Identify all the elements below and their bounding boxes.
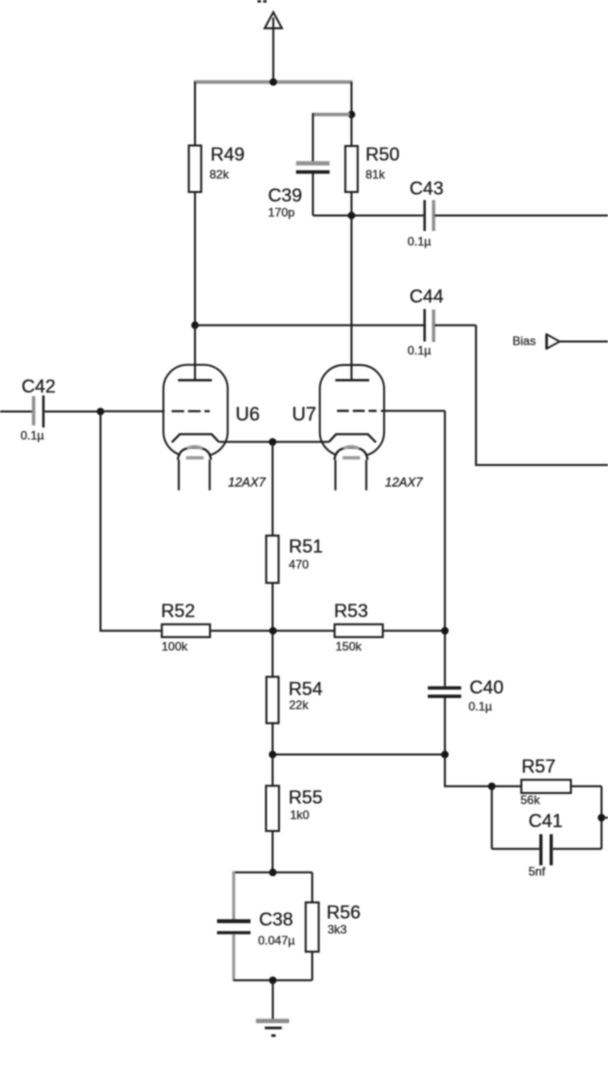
svg-text:R55: R55 — [289, 787, 323, 808]
svg-text:R50: R50 — [366, 144, 400, 165]
wire: stub to right edge — [602, 817, 608, 819]
svg-text:C42: C42 — [22, 376, 56, 397]
svg-text:R52: R52 — [161, 600, 195, 621]
svg-text:81k: 81k — [366, 168, 386, 182]
svg-text:C39: C39 — [268, 185, 302, 206]
svg-text:R51: R51 — [289, 536, 323, 557]
resistor R55 — [266, 755, 323, 873]
node: input junction — [97, 408, 105, 416]
resistor R56 — [306, 872, 361, 980]
triode U7 — [292, 365, 445, 490]
node: R50/C39 top junction — [348, 111, 356, 119]
svg-text:56k: 56k — [521, 793, 541, 807]
clipped label fragment at top edge — [258, 0, 267, 3]
svg-text:C38: C38 — [259, 909, 293, 930]
wire: C39 top link (gray) — [313, 113, 350, 116]
wire: R50 to U7 plate — [351, 192, 353, 380]
svg-text:U7: U7 — [292, 405, 316, 426]
wire: U7 grid down to R53 — [444, 411, 446, 631]
svg-text:R57: R57 — [522, 756, 556, 777]
svg-text:0.1µ: 0.1µ — [408, 344, 432, 358]
wire: tail node to R57 block — [445, 755, 492, 787]
wire: grid lead to U6 — [101, 410, 165, 412]
wire: input node down to R52 — [101, 412, 162, 631]
capacitor C40 — [428, 631, 504, 755]
svg-text:170p: 170p — [268, 206, 295, 220]
node: C38/R56 top junction — [269, 869, 277, 877]
svg-text:5nf: 5nf — [529, 865, 546, 879]
svg-text:82k: 82k — [210, 168, 230, 182]
svg-text:12AX7: 12AX7 — [385, 476, 424, 490]
resistor R50 — [345, 144, 399, 193]
node: R53 right junction — [441, 627, 449, 635]
node: C43 tap junction — [348, 212, 356, 220]
wire: input from left edge — [0, 411, 32, 413]
capacitor C44 — [195, 286, 476, 358]
svg-text:R56: R56 — [327, 902, 361, 923]
svg-text:470: 470 — [289, 558, 309, 572]
svg-text:22k: 22k — [289, 698, 309, 712]
wire: tail row — [273, 754, 445, 756]
svg-text:1k0: 1k0 — [290, 808, 310, 822]
node: U6 plate junction — [191, 321, 199, 329]
svg-text:C41: C41 — [529, 810, 563, 831]
resistor R49 — [189, 144, 245, 193]
wire: R49 to plate node — [194, 192, 196, 326]
resistor R54 — [266, 631, 322, 755]
capacitor C43 — [352, 178, 608, 249]
wire: B+ rail (gray) — [194, 80, 353, 84]
svg-text:150k: 150k — [336, 640, 363, 654]
node: C38/R56 bottom junction — [269, 977, 277, 985]
wire: cathode to R51 — [272, 442, 274, 536]
svg-text:3k3: 3k3 — [328, 923, 348, 937]
wire: C44 output to right edge — [476, 325, 608, 465]
ground — [256, 980, 289, 1035]
node: R57 block left junction — [488, 783, 496, 791]
svg-text:U6: U6 — [236, 405, 260, 426]
triode U6 — [163, 326, 266, 490]
svg-text:C40: C40 — [470, 677, 504, 698]
node: tail left junction — [269, 751, 277, 759]
resistor R51 — [266, 536, 323, 583]
svg-text:0.1µ: 0.1µ — [469, 700, 493, 714]
node: tail right junction — [441, 751, 449, 759]
wire: R57 block right branch — [601, 786, 603, 849]
node: output junction right — [598, 814, 606, 822]
resistor R52 — [161, 600, 273, 654]
svg-text:0.1µ: 0.1µ — [408, 235, 432, 249]
wire: parallel block top rail — [234, 871, 313, 873]
svg-text:C43: C43 — [410, 178, 444, 199]
svg-text:R49: R49 — [211, 144, 245, 165]
wire: cathodes common — [219, 441, 329, 443]
capacitor C42 — [21, 376, 101, 443]
wire: parallel block bottom rail — [234, 979, 313, 981]
power supply symbol (up arrow) — [265, 12, 282, 82]
wire: rail to R49 — [194, 82, 196, 146]
svg-text:0.1µ: 0.1µ — [21, 429, 45, 443]
node: mid junction — [269, 627, 277, 635]
wire: rail to R50 branch — [351, 82, 353, 146]
capacitor C41 — [492, 786, 602, 878]
svg-text:Bias: Bias — [513, 334, 536, 348]
svg-text:0.047µ: 0.047µ — [258, 934, 295, 948]
resistor R57 — [492, 756, 602, 808]
node: Bias connector — [513, 334, 608, 349]
wire: R51 to mid node — [272, 583, 274, 631]
svg-text:C44: C44 — [410, 286, 444, 307]
node: cathode junction — [269, 438, 277, 446]
svg-text:R54: R54 — [289, 678, 323, 699]
node: rail junction — [270, 78, 278, 86]
svg-text:R53: R53 — [334, 600, 368, 621]
capacitor C38 — [217, 871, 295, 981]
svg-text:100k: 100k — [162, 640, 189, 654]
capacitor C39 — [268, 113, 352, 220]
svg-text:12AX7: 12AX7 — [228, 476, 267, 490]
resistor R53 — [273, 600, 445, 654]
